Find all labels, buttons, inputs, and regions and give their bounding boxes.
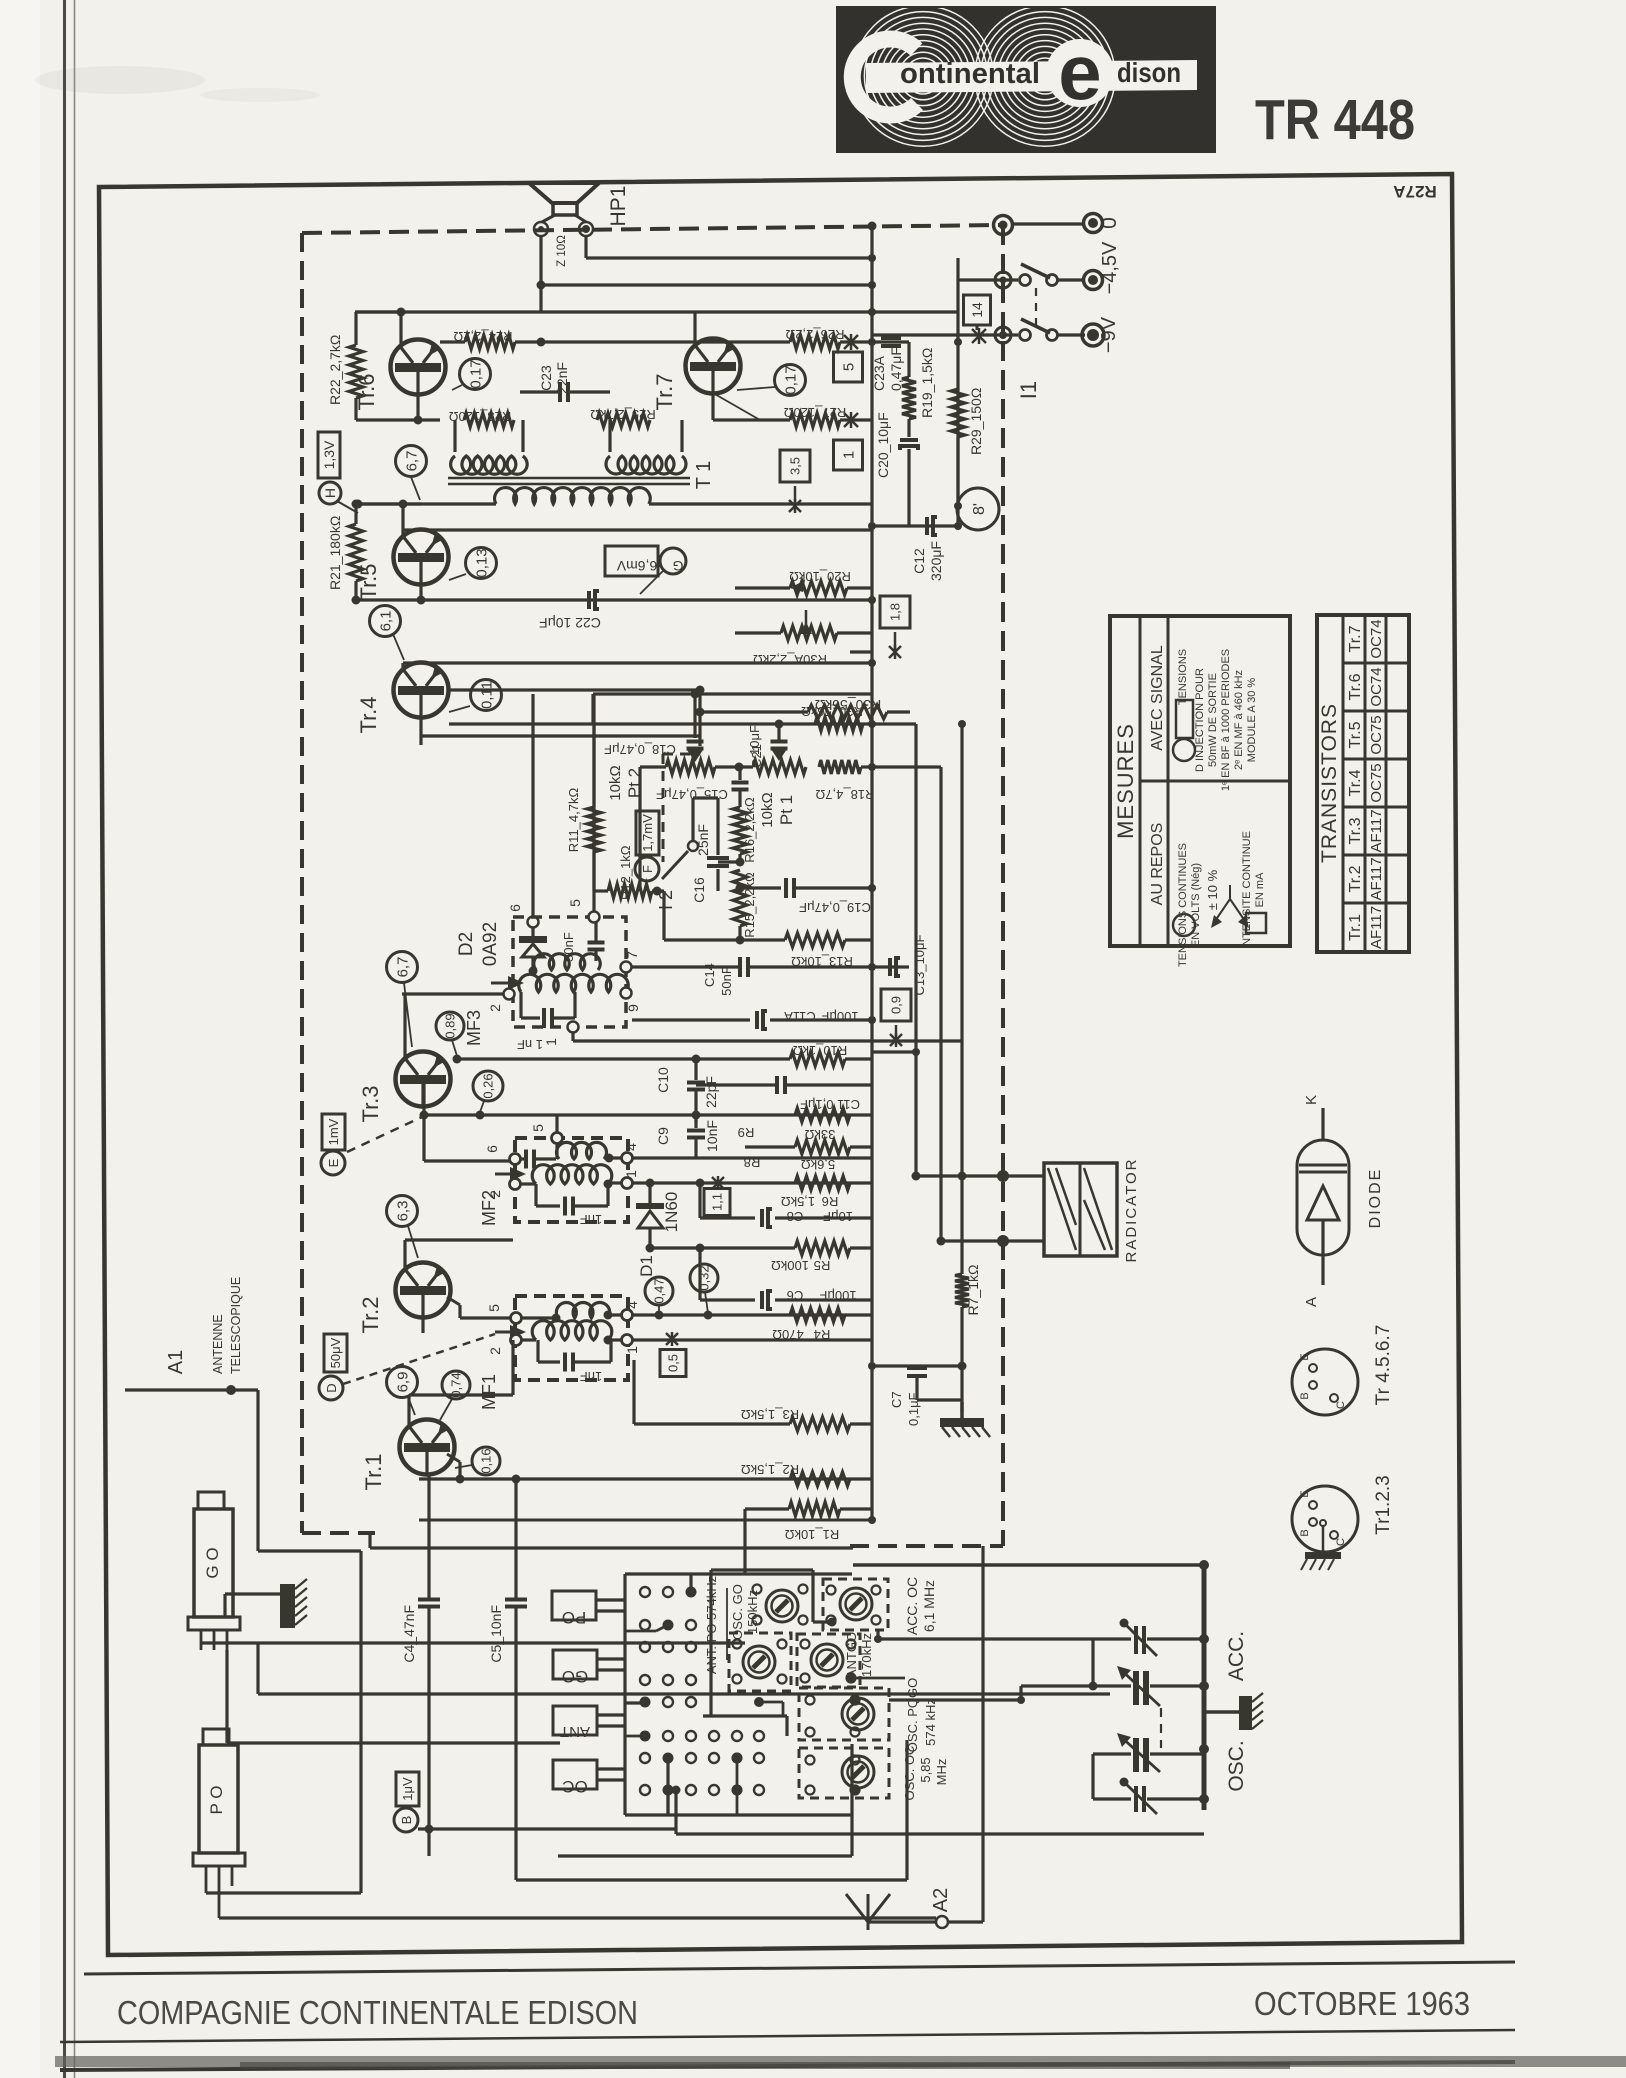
svg-text:OC75: OC75 xyxy=(1368,763,1385,802)
Tr2 base down xyxy=(421,1317,424,1333)
wires cans to matrix xyxy=(754,1697,764,1707)
title block lines xyxy=(84,1962,1515,1974)
B 1uV marker xyxy=(396,1772,419,1806)
svg-text:COMPAGNIE CONTINENTALE EDISO: COMPAGNIE CONTINENTALE EDISON xyxy=(117,1994,638,2031)
svg-text:R23_120Ω: R23_120Ω xyxy=(448,409,511,424)
svg-text:OSC. GO: OSC. GO xyxy=(730,1584,745,1640)
wire Tr6 collector up xyxy=(399,312,402,347)
PO selector box xyxy=(552,1591,596,1620)
main dashed enclosure top edge (0 volt bus) xyxy=(302,225,1003,233)
svg-text:D1: D1 xyxy=(637,1255,656,1277)
svg-text:Tr.1: Tr.1 xyxy=(1347,914,1364,941)
svg-text:R6: R6 xyxy=(822,1194,839,1209)
svg-text:10nF: 10nF xyxy=(704,1120,720,1152)
capacitor C4 47nF xyxy=(427,1474,430,1598)
svg-text:H: H xyxy=(322,488,338,498)
wire row y506 xyxy=(954,502,962,510)
wire -9V row xyxy=(872,333,1018,336)
MF1 top winding xyxy=(522,1316,556,1319)
svg-text:C: C xyxy=(1335,1538,1347,1546)
svg-text:R3_1,5kΩ: R3_1,5kΩ xyxy=(741,1407,799,1422)
svg-text:RADICATOR: RADICATOR xyxy=(1123,1158,1140,1263)
svg-text:e: e xyxy=(1058,28,1101,116)
R9 33k on base row 1115 xyxy=(795,1108,850,1122)
svg-text:5: 5 xyxy=(840,363,857,371)
MF2 pin 1 xyxy=(622,1178,633,1189)
svg-text:EN mA: EN mA xyxy=(1254,872,1266,908)
MF2 arrow xyxy=(495,1173,515,1176)
Tr1 emitter row 1479 xyxy=(447,1454,460,1462)
resistor R13 10k row y940 xyxy=(664,938,785,941)
svg-text:10kΩ: 10kΩ xyxy=(607,765,624,800)
svg-text:1: 1 xyxy=(624,1346,640,1354)
svg-text:A1: A1 xyxy=(165,1350,187,1374)
svg-text:AF117: AF117 xyxy=(1368,857,1385,900)
svg-text:EN VOLTS (Nég): EN VOLTS (Nég) xyxy=(1190,863,1202,947)
svg-text:100kΩ: 100kΩ xyxy=(771,1258,809,1273)
ground below C7 xyxy=(917,1398,962,1401)
svg-text:100μF: 100μF xyxy=(819,1288,856,1303)
svg-text:0,26: 0,26 xyxy=(481,1073,496,1098)
C9 10nF vertical upper xyxy=(694,1115,697,1128)
diode D2 0A92 xyxy=(528,917,539,928)
svg-text:C14: C14 xyxy=(702,963,717,987)
row y1041 from pin 1 xyxy=(571,1033,574,1041)
T1 core lines xyxy=(448,477,690,480)
transistor Tr6 xyxy=(391,340,446,395)
D 50uV marker xyxy=(324,1334,347,1372)
wire Tr5 collector row xyxy=(401,504,404,536)
matrix wires xyxy=(689,1574,692,1591)
circled 0,47 xyxy=(645,1277,673,1305)
svg-text:1nF: 1nF xyxy=(580,1212,602,1227)
svg-text:ANTGO: ANTGO xyxy=(844,1632,859,1678)
row y1059 R10 xyxy=(457,1057,790,1060)
svg-text:Tr.4: Tr.4 xyxy=(356,696,381,733)
MF3 50nF cap xyxy=(594,922,597,941)
svg-text:4: 4 xyxy=(624,1301,640,1309)
MF1 1nF cap xyxy=(536,1340,539,1362)
svg-text:OC: OC xyxy=(562,1777,588,1796)
svg-text:MF2: MF2 xyxy=(479,1190,499,1226)
svg-text:1μV: 1μV xyxy=(400,1777,415,1801)
dashed box ACC OC with can xyxy=(823,1579,888,1630)
MF3 dashed box xyxy=(513,917,626,1027)
diode legend symbol xyxy=(1297,1140,1349,1255)
wire Tr5 base row xyxy=(358,502,421,505)
circled 6,1 xyxy=(370,606,401,637)
resistor R12 1k xyxy=(594,889,608,892)
speaker terminal right xyxy=(579,222,593,236)
circled 0,74 xyxy=(442,1371,470,1399)
row 1509 R1 10k xyxy=(745,1507,789,1510)
C6 row 1300 xyxy=(698,1248,701,1300)
MF2 top winding xyxy=(557,1142,607,1159)
svg-text:1,7mV: 1,7mV xyxy=(640,814,655,852)
C8 10uF row 1218 xyxy=(698,1183,701,1218)
circled 6,7 upper xyxy=(396,446,427,477)
MF2 lower winding xyxy=(510,1179,521,1190)
MF3 top winding xyxy=(534,954,601,970)
svg-text:Tr.5: Tr.5 xyxy=(1347,721,1364,748)
wire Tr3 base bus xyxy=(422,1082,425,1161)
MF3 pin 9 xyxy=(621,988,632,999)
dashed box ANT PO with can xyxy=(729,1633,791,1691)
page left scan edge lines xyxy=(35,66,205,94)
E 1mV marker xyxy=(322,1114,345,1150)
socket Tr 1.2.3 xyxy=(1292,1486,1358,1552)
svg-text:R24_2,2Ω: R24_2,2Ω xyxy=(453,329,512,344)
svg-text:0,5: 0,5 xyxy=(666,1354,681,1372)
resistor R22 2,7k xyxy=(354,312,357,345)
svg-text:TR 448: TR 448 xyxy=(1255,88,1415,152)
OSC GO cell outline xyxy=(711,1568,813,1571)
svg-text:574 kHz: 574 kHz xyxy=(923,1698,938,1746)
svg-text:22nF: 22nF xyxy=(554,362,570,394)
MF3 arrow xyxy=(491,982,513,985)
can OSC GO xyxy=(766,1590,798,1622)
resistor R2 1,5k xyxy=(790,1472,850,1486)
circled 6,3 xyxy=(387,1196,418,1227)
svg-text:I1: I1 xyxy=(1016,381,1041,399)
wire Tr4 emitter row xyxy=(419,717,422,745)
main dashed enclosure bottom-left stub xyxy=(302,1531,375,1535)
trimmer left bracket upper xyxy=(1091,1639,1094,1686)
svg-text:−4,5V: −4,5V xyxy=(1099,241,1121,294)
capacitor C5 10nF xyxy=(514,1479,517,1598)
svg-text:22pF: 22pF xyxy=(703,1076,719,1108)
svg-text:14: 14 xyxy=(969,302,985,318)
svg-text:HP1: HP1 xyxy=(607,186,630,227)
svg-text:5,85: 5,85 xyxy=(918,1757,933,1782)
boxed 1 xyxy=(834,440,863,470)
svg-text:1ᵉ EN BF à 1000 PERIODES: 1ᵉ EN BF à 1000 PERIODES xyxy=(1220,649,1232,791)
MF1 arrow xyxy=(495,1331,515,1334)
trimmer OSC small xyxy=(1093,1797,1131,1800)
ANT selector box xyxy=(553,1706,597,1735)
svg-text:1 nF: 1 nF xyxy=(517,1037,543,1052)
svg-text:R15_2,2kΩ: R15_2,2kΩ xyxy=(742,872,757,938)
switch I1 dashed link xyxy=(1035,288,1037,326)
svg-text:C12: C12 xyxy=(911,548,927,574)
PO winding wires xyxy=(205,1886,208,1893)
wire osc row down xyxy=(850,1815,853,1856)
MF2 dashed box xyxy=(515,1138,628,1222)
circle 0,13 xyxy=(466,548,497,579)
main dashed enclosure right edge (battery dashed line) xyxy=(1001,225,1005,1546)
svg-text:ACC.: ACC. xyxy=(1225,1631,1248,1681)
svg-text:R19_1,5kΩ: R19_1,5kΩ xyxy=(919,348,935,418)
dashed box around I2 xyxy=(662,754,665,862)
trimmer ACC small xyxy=(1093,1637,1131,1640)
wire 1565 to rail xyxy=(853,1563,1204,1567)
svg-text:150kHz: 150kHz xyxy=(745,1590,760,1634)
resistor R29 150 ohm xyxy=(957,342,960,389)
R8 5,6k row 1147 xyxy=(745,1145,795,1148)
svg-text:OC74: OC74 xyxy=(1368,667,1385,706)
MF2 pin 5 xyxy=(552,1133,563,1144)
antenna A1 wire xyxy=(125,1388,258,1391)
wire Tr3 base to MF2 pin6 xyxy=(424,1159,509,1162)
svg-text:C11 0,1μF: C11 0,1μF xyxy=(800,1097,860,1112)
svg-text:R16_2,2kΩ: R16_2,2kΩ xyxy=(742,797,757,863)
svg-text:R5: R5 xyxy=(814,1258,831,1273)
svg-text:6,7: 6,7 xyxy=(403,451,420,472)
svg-text:C10: C10 xyxy=(655,1067,671,1093)
svg-text:C19_0,47μF: C19_0,47μF xyxy=(799,900,871,915)
ferrite bar GO xyxy=(198,1492,224,1509)
svg-text:100μF: 100μF xyxy=(821,1009,858,1024)
ferrite bar PO xyxy=(203,1729,229,1745)
MF1 pin1 row xyxy=(633,1338,872,1341)
svg-text:0A92: 0A92 xyxy=(480,922,501,966)
svg-text:R1_10kΩ: R1_10kΩ xyxy=(784,1527,839,1542)
svg-text:0,16: 0,16 xyxy=(479,1448,494,1473)
svg-text:2: 2 xyxy=(487,1004,503,1012)
svg-text:5: 5 xyxy=(567,899,583,907)
svg-text:E: E xyxy=(326,1158,341,1167)
capacitor C23A 0,47uF xyxy=(868,338,876,346)
svg-text:AU REPOS: AU REPOS xyxy=(1149,823,1166,906)
boxed 0,9 xyxy=(881,989,911,1021)
svg-text:1: 1 xyxy=(543,1038,559,1046)
wire Tr5 emitter row xyxy=(419,584,422,600)
MF1 pin 1 xyxy=(622,1335,633,1346)
svg-text:± 10 %: ± 10 % xyxy=(1205,869,1220,910)
wire -4.5V row xyxy=(958,278,1018,281)
svg-text:C23: C23 xyxy=(538,365,554,391)
svg-text:MHz: MHz xyxy=(934,1759,949,1786)
svg-text:MF3: MF3 xyxy=(464,1010,484,1046)
MF3 lower winding xyxy=(519,974,629,992)
row y694 short top xyxy=(593,692,872,695)
row y724 long xyxy=(449,722,872,725)
MF1 pin 4 xyxy=(622,1310,633,1321)
wire vertical x640 Pt2 left xyxy=(638,767,641,891)
circle 0,26 xyxy=(473,1071,503,1101)
wire secondary right to bus xyxy=(649,502,872,505)
main dashed enclosure bottom-right edge xyxy=(850,1544,1003,1548)
wire Tr2 emitter to MF1 pin5 xyxy=(447,1297,460,1305)
measurement circle 0,17 at Tr7 xyxy=(775,365,806,396)
svg-text:MF1: MF1 xyxy=(479,1374,499,1410)
svg-text:6,6mV: 6,6mV xyxy=(616,558,657,574)
resistor R26 2,2 ohm xyxy=(735,340,790,343)
svg-text:MESURES: MESURES xyxy=(1113,723,1138,839)
resistor R21 180k xyxy=(354,504,357,524)
socket Tr 4.5.6.7 xyxy=(1292,1349,1358,1415)
MF2 pin 4 xyxy=(622,1153,633,1164)
svg-text:R11_4,7kΩ: R11_4,7kΩ xyxy=(566,788,581,853)
svg-text:50mW DE SORTIE: 50mW DE SORTIE xyxy=(1207,673,1219,767)
svg-text:1,1: 1,1 xyxy=(710,1193,725,1211)
svg-text:Tr.3: Tr.3 xyxy=(1347,817,1364,844)
svg-text:C: C xyxy=(1335,1401,1347,1409)
wire Tr3 collector to MF3 pin2 xyxy=(403,994,406,1058)
vertical bus x962 lower xyxy=(960,724,963,1176)
svg-text:TENSIONS CONTINUES: TENSIONS CONTINUES xyxy=(1177,843,1189,967)
MF1 lower winding xyxy=(522,1338,536,1341)
svg-text:Tr.7: Tr.7 xyxy=(1347,625,1364,652)
svg-text:OSC.: OSC. xyxy=(1225,1740,1248,1791)
wire y258 to bus xyxy=(868,308,876,316)
boxed 1,1 xyxy=(704,1189,730,1216)
wire B to osc xyxy=(676,1832,1204,1835)
svg-text:AF117: AF117 xyxy=(1368,906,1385,949)
RADICATOR xyxy=(1044,1163,1117,1256)
svg-text:dison: dison xyxy=(1117,57,1181,88)
matrix contacts xyxy=(640,1587,650,1597)
svg-text:0,89: 0,89 xyxy=(443,1013,458,1038)
svg-text:2ᵉ EN MF à 460 kHz: 2ᵉ EN MF à 460 kHz xyxy=(1233,670,1245,770)
dashed box ANTGO with can xyxy=(797,1634,860,1687)
row y420 - R23 R25 R27 xyxy=(356,418,440,421)
svg-text:1mV: 1mV xyxy=(326,1118,341,1145)
resistor R15 2,2k vertical xyxy=(733,870,747,926)
MF2 1nF cap xyxy=(534,1184,537,1206)
svg-text:5: 5 xyxy=(486,1304,502,1312)
trimmer main gang lower (fat) xyxy=(1093,1752,1131,1755)
svg-text:1,8: 1,8 xyxy=(888,603,903,621)
svg-text:AF117: AF117 xyxy=(1368,809,1385,852)
svg-text:ANTENNE: ANTENNE xyxy=(211,1314,225,1374)
dashed box OSC OC with can xyxy=(799,1748,889,1798)
boxed 6,6mV with G xyxy=(605,546,658,576)
svg-text:B: B xyxy=(1299,1529,1311,1536)
svg-text:0,1μF: 0,1μF xyxy=(906,1392,921,1426)
row 1520 bottom bus xyxy=(419,1519,872,1522)
svg-text:R21_180kΩ: R21_180kΩ xyxy=(327,516,343,590)
boxed 1,3V with circle H xyxy=(318,432,340,478)
svg-text:DIODE: DIODE xyxy=(1367,1168,1384,1229)
svg-text:6,9: 6,9 xyxy=(394,1372,411,1393)
svg-text:0,17: 0,17 xyxy=(782,365,799,394)
wire Tr2 collector xyxy=(403,1240,406,1269)
svg-text:0,74: 0,74 xyxy=(449,1372,464,1397)
MF1 pin 2 xyxy=(511,1335,522,1346)
C11A 100uF on row 1020 xyxy=(632,1018,750,1021)
svg-text:K: K xyxy=(1303,1095,1320,1105)
R4 470 on pin4 row xyxy=(790,1308,845,1322)
boxed 3,5 xyxy=(780,450,810,482)
svg-text:D: D xyxy=(324,1383,339,1392)
wire row y862 R15 top xyxy=(718,860,740,863)
svg-text:0,11: 0,11 xyxy=(478,681,495,709)
svg-text:T 1: T 1 xyxy=(693,461,715,490)
svg-text:8ʹ: 8ʹ xyxy=(971,503,988,515)
svg-text:Tr.3: Tr.3 xyxy=(358,1085,383,1122)
svg-text:TRANSISTORS: TRANSISTORS xyxy=(1318,703,1341,863)
pot Pt2 10k xyxy=(640,765,666,768)
circled 8v xyxy=(957,488,999,530)
C6 100uF on Tr2 emitter row xyxy=(760,1291,764,1309)
MF2 pin4 row to bus xyxy=(633,1156,872,1159)
wire bus y312 xyxy=(355,310,958,313)
capacitor C13 10uF xyxy=(872,965,909,968)
vertical x700 xyxy=(698,690,701,746)
svg-text:Tr1.2.3: Tr1.2.3 xyxy=(1373,1475,1394,1535)
trimmer rail right xyxy=(1202,1565,1207,1810)
svg-text:ANT: ANT xyxy=(560,1723,590,1740)
capacitor C19 0,47uF xyxy=(740,886,781,889)
trimmer main gang upper (fat) xyxy=(1021,1684,1131,1687)
wire secondary left xyxy=(358,502,496,505)
R6 1,5k on pin1 row xyxy=(795,1176,850,1190)
svg-text:3,5: 3,5 xyxy=(788,457,803,475)
svg-text:1nF: 1nF xyxy=(580,1369,602,1384)
svg-text:R10_1kΩ: R10_1kΩ xyxy=(792,1043,847,1058)
svg-text:Z 10Ω: Z 10Ω xyxy=(556,235,568,267)
can cell pin contacts xyxy=(753,1585,762,1594)
row y967 from pin7 with C14 xyxy=(632,965,740,968)
resistor R19 1,5k xyxy=(907,342,910,377)
svg-text:6: 6 xyxy=(484,1145,500,1153)
svg-text:50nF: 50nF xyxy=(719,966,734,996)
svg-text:6,1 MHz: 6,1 MHz xyxy=(921,1580,937,1632)
capacitor C23 22nF xyxy=(520,390,560,393)
switch I2 and 25nF xyxy=(688,841,698,851)
GO selector box xyxy=(553,1650,597,1679)
transistor Tr4 xyxy=(394,663,449,718)
boxed 1,8 xyxy=(880,596,910,628)
svg-text:R26_2,2Ω: R26_2,2Ω xyxy=(785,327,844,342)
svg-text:D2: D2 xyxy=(456,932,477,956)
wire R24 to bus xyxy=(541,340,735,343)
boxed 1,7mV with F xyxy=(636,811,659,855)
GO winding wires xyxy=(201,1641,745,1644)
capacitor C15 0,47uF xyxy=(738,767,741,780)
circled 0,16 xyxy=(472,1447,500,1475)
transistor Tr2 xyxy=(396,1263,451,1318)
svg-text:2: 2 xyxy=(487,1347,503,1355)
C7 0,1uF xyxy=(872,1364,962,1367)
svg-text:OSC. OC: OSC. OC xyxy=(902,1746,917,1801)
diode D1 1N60 xyxy=(648,1183,651,1203)
svg-text:1N60: 1N60 xyxy=(662,1192,681,1233)
ground at trimmer rail xyxy=(1204,1710,1239,1714)
svg-text:C11A: C11A xyxy=(784,1009,816,1024)
svg-text:0,13: 0,13 xyxy=(473,548,490,577)
svg-text:R18_4,7Ω: R18_4,7Ω xyxy=(815,787,874,802)
resistor R18 4,7 ohm xyxy=(819,760,861,774)
boxed 5 xyxy=(834,352,863,382)
svg-text:R12_1kΩ: R12_1kΩ xyxy=(618,845,633,900)
feed vertical x941 xyxy=(872,765,941,768)
measurement circle 0,17 at Tr6 xyxy=(460,359,491,390)
pot Pt1 10k xyxy=(753,760,806,774)
resistor R20 10k xyxy=(735,586,790,589)
svg-text:G: G xyxy=(673,558,684,574)
svg-text:C8: C8 xyxy=(787,1209,804,1224)
svg-text:170kHz: 170kHz xyxy=(859,1633,874,1677)
table TRANSISTORS xyxy=(1317,615,1409,952)
svg-text:ontinental: ontinental xyxy=(900,58,1040,90)
MF1 pin4 row to bus xyxy=(633,1313,872,1316)
svg-text:Tr.7: Tr.7 xyxy=(652,373,677,410)
speaker HP1 xyxy=(529,183,599,203)
svg-text:10kΩ: 10kΩ xyxy=(759,792,776,827)
svg-text:ACC. OC: ACC. OC xyxy=(904,1577,920,1635)
svg-text:R30A_2,2kΩ: R30A_2,2kΩ xyxy=(753,652,827,667)
MF2 pin1 row xyxy=(633,1181,872,1184)
transistor Tr7 xyxy=(686,339,741,394)
svg-text:R9: R9 xyxy=(738,1125,755,1140)
svg-text:R22_2,7kΩ: R22_2,7kΩ xyxy=(327,335,343,405)
svg-text:G O: G O xyxy=(203,1547,222,1578)
avec signal cell content xyxy=(1173,739,1195,761)
svg-text:A2: A2 xyxy=(930,1888,952,1912)
row y690 from Tr4 xyxy=(449,688,700,691)
